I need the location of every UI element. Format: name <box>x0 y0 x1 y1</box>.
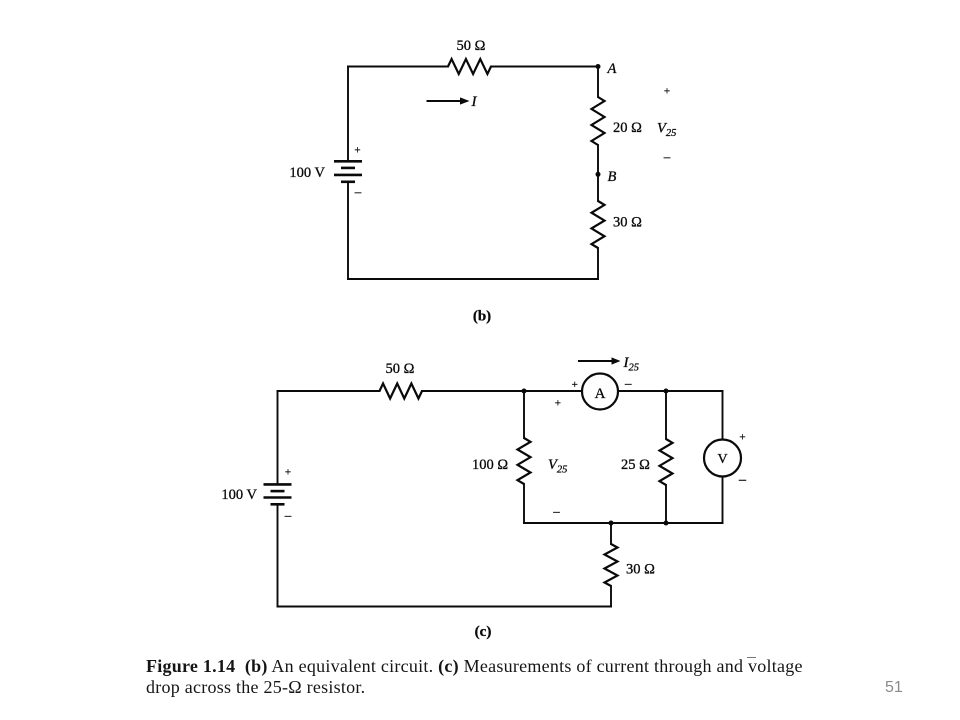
svg-text:–: – <box>284 508 292 523</box>
svg-text:20 Ω: 20 Ω <box>613 120 642 136</box>
page number <box>885 679 903 697</box>
battery 100V (c) <box>264 484 292 504</box>
junction dot rail-25ohm (c) <box>664 521 669 526</box>
wire 30ohm-to-bottom (b) <box>597 248 599 279</box>
wire top segment 50ohm-to-junction (c) <box>422 390 582 392</box>
wire 20ohm-to-30ohm through node B (b) <box>597 145 599 201</box>
svg-text:(c): (c) <box>475 624 492 640</box>
wire right upper voltmeter lead (c) <box>722 391 724 440</box>
svg-text:(b): (b) <box>473 309 491 325</box>
svg-text:V25: V25 <box>548 457 567 476</box>
wire 30ohm bottom lead (c) <box>610 586 612 607</box>
wire left upper (b) <box>347 67 349 161</box>
resistor 20 ohm (b) <box>592 97 605 145</box>
node B dot (b) <box>596 172 601 177</box>
wire top segment ammeter-to-corner (c) <box>618 390 723 392</box>
svg-text:+: + <box>354 145 360 157</box>
junction dot right of ammeter (c) <box>664 389 669 394</box>
wire top segment battery-to-50ohm (c) <box>278 390 380 392</box>
resistor 25 ohm (c) <box>660 439 673 485</box>
wire right lower voltmeter lead (c) <box>722 477 724 524</box>
wire left lower (b) <box>347 182 349 279</box>
wire right A-to-20ohm (b) <box>597 67 599 98</box>
svg-text:–: – <box>624 376 632 391</box>
wire left upper (c) <box>277 391 279 484</box>
resistor 100 ohm (c) <box>518 438 531 484</box>
svg-text:30 Ω: 30 Ω <box>613 215 642 231</box>
svg-text:B: B <box>608 169 617 185</box>
voltmeter V (c) <box>704 440 741 477</box>
svg-text:+: + <box>572 379 578 391</box>
resistor 50 ohm (b) <box>448 59 491 74</box>
wire top-left (b) <box>348 66 448 68</box>
wire bottom (c) <box>278 606 612 608</box>
wire 100ohm top lead (c) <box>523 391 525 438</box>
svg-text:V25: V25 <box>657 121 676 140</box>
battery 100V (b) <box>334 161 362 182</box>
svg-text:–: – <box>738 473 747 488</box>
wire bottom (b) <box>348 278 598 280</box>
svg-text:–: – <box>552 504 560 519</box>
wire 30ohm top lead (c) <box>610 523 612 544</box>
svg-text:50 Ω: 50 Ω <box>386 361 415 377</box>
svg-text:100 V: 100 V <box>221 487 257 503</box>
current arrow I (b) <box>427 97 470 104</box>
svg-text:I: I <box>471 94 478 110</box>
wire 25ohm bottom lead (c) <box>665 485 667 523</box>
svg-text:–: – <box>354 184 362 199</box>
svg-text:–: – <box>663 149 671 164</box>
wire 25ohm top lead (c) <box>665 391 667 439</box>
node A dot (b) <box>596 64 601 69</box>
svg-text:I25: I25 <box>623 355 640 374</box>
svg-text:+: + <box>664 86 670 98</box>
resistor 30 ohm (b) <box>592 201 605 248</box>
wire 100ohm bottom lead (c) <box>523 484 525 523</box>
wire top-right (b) <box>491 66 598 68</box>
svg-text:30 Ω: 30 Ω <box>626 562 655 578</box>
ammeter A (c) <box>582 374 618 410</box>
svg-text:+: + <box>739 432 745 444</box>
svg-text:V: V <box>717 452 727 467</box>
resistor 50 ohm (c) <box>380 384 423 399</box>
junction dot rail-30ohm (c) <box>609 521 614 526</box>
wire left lower (c) <box>277 505 279 607</box>
scan artifact macron over voltage <box>747 657 756 659</box>
svg-text:+: + <box>555 398 561 410</box>
svg-text:50 Ω: 50 Ω <box>457 38 486 54</box>
caption <box>146 656 846 698</box>
current arrow I25 (c) <box>578 357 621 364</box>
resistor 30 ohm (c) <box>605 544 618 586</box>
svg-text:25 Ω: 25 Ω <box>621 457 650 473</box>
wire rail (c) <box>524 522 723 524</box>
svg-text:100 Ω: 100 Ω <box>472 457 508 473</box>
svg-text:A: A <box>607 61 617 77</box>
junction dot left (c) <box>522 389 527 394</box>
svg-text:A: A <box>595 386 606 402</box>
svg-text:100 V: 100 V <box>289 165 325 181</box>
svg-text:+: + <box>285 467 291 479</box>
